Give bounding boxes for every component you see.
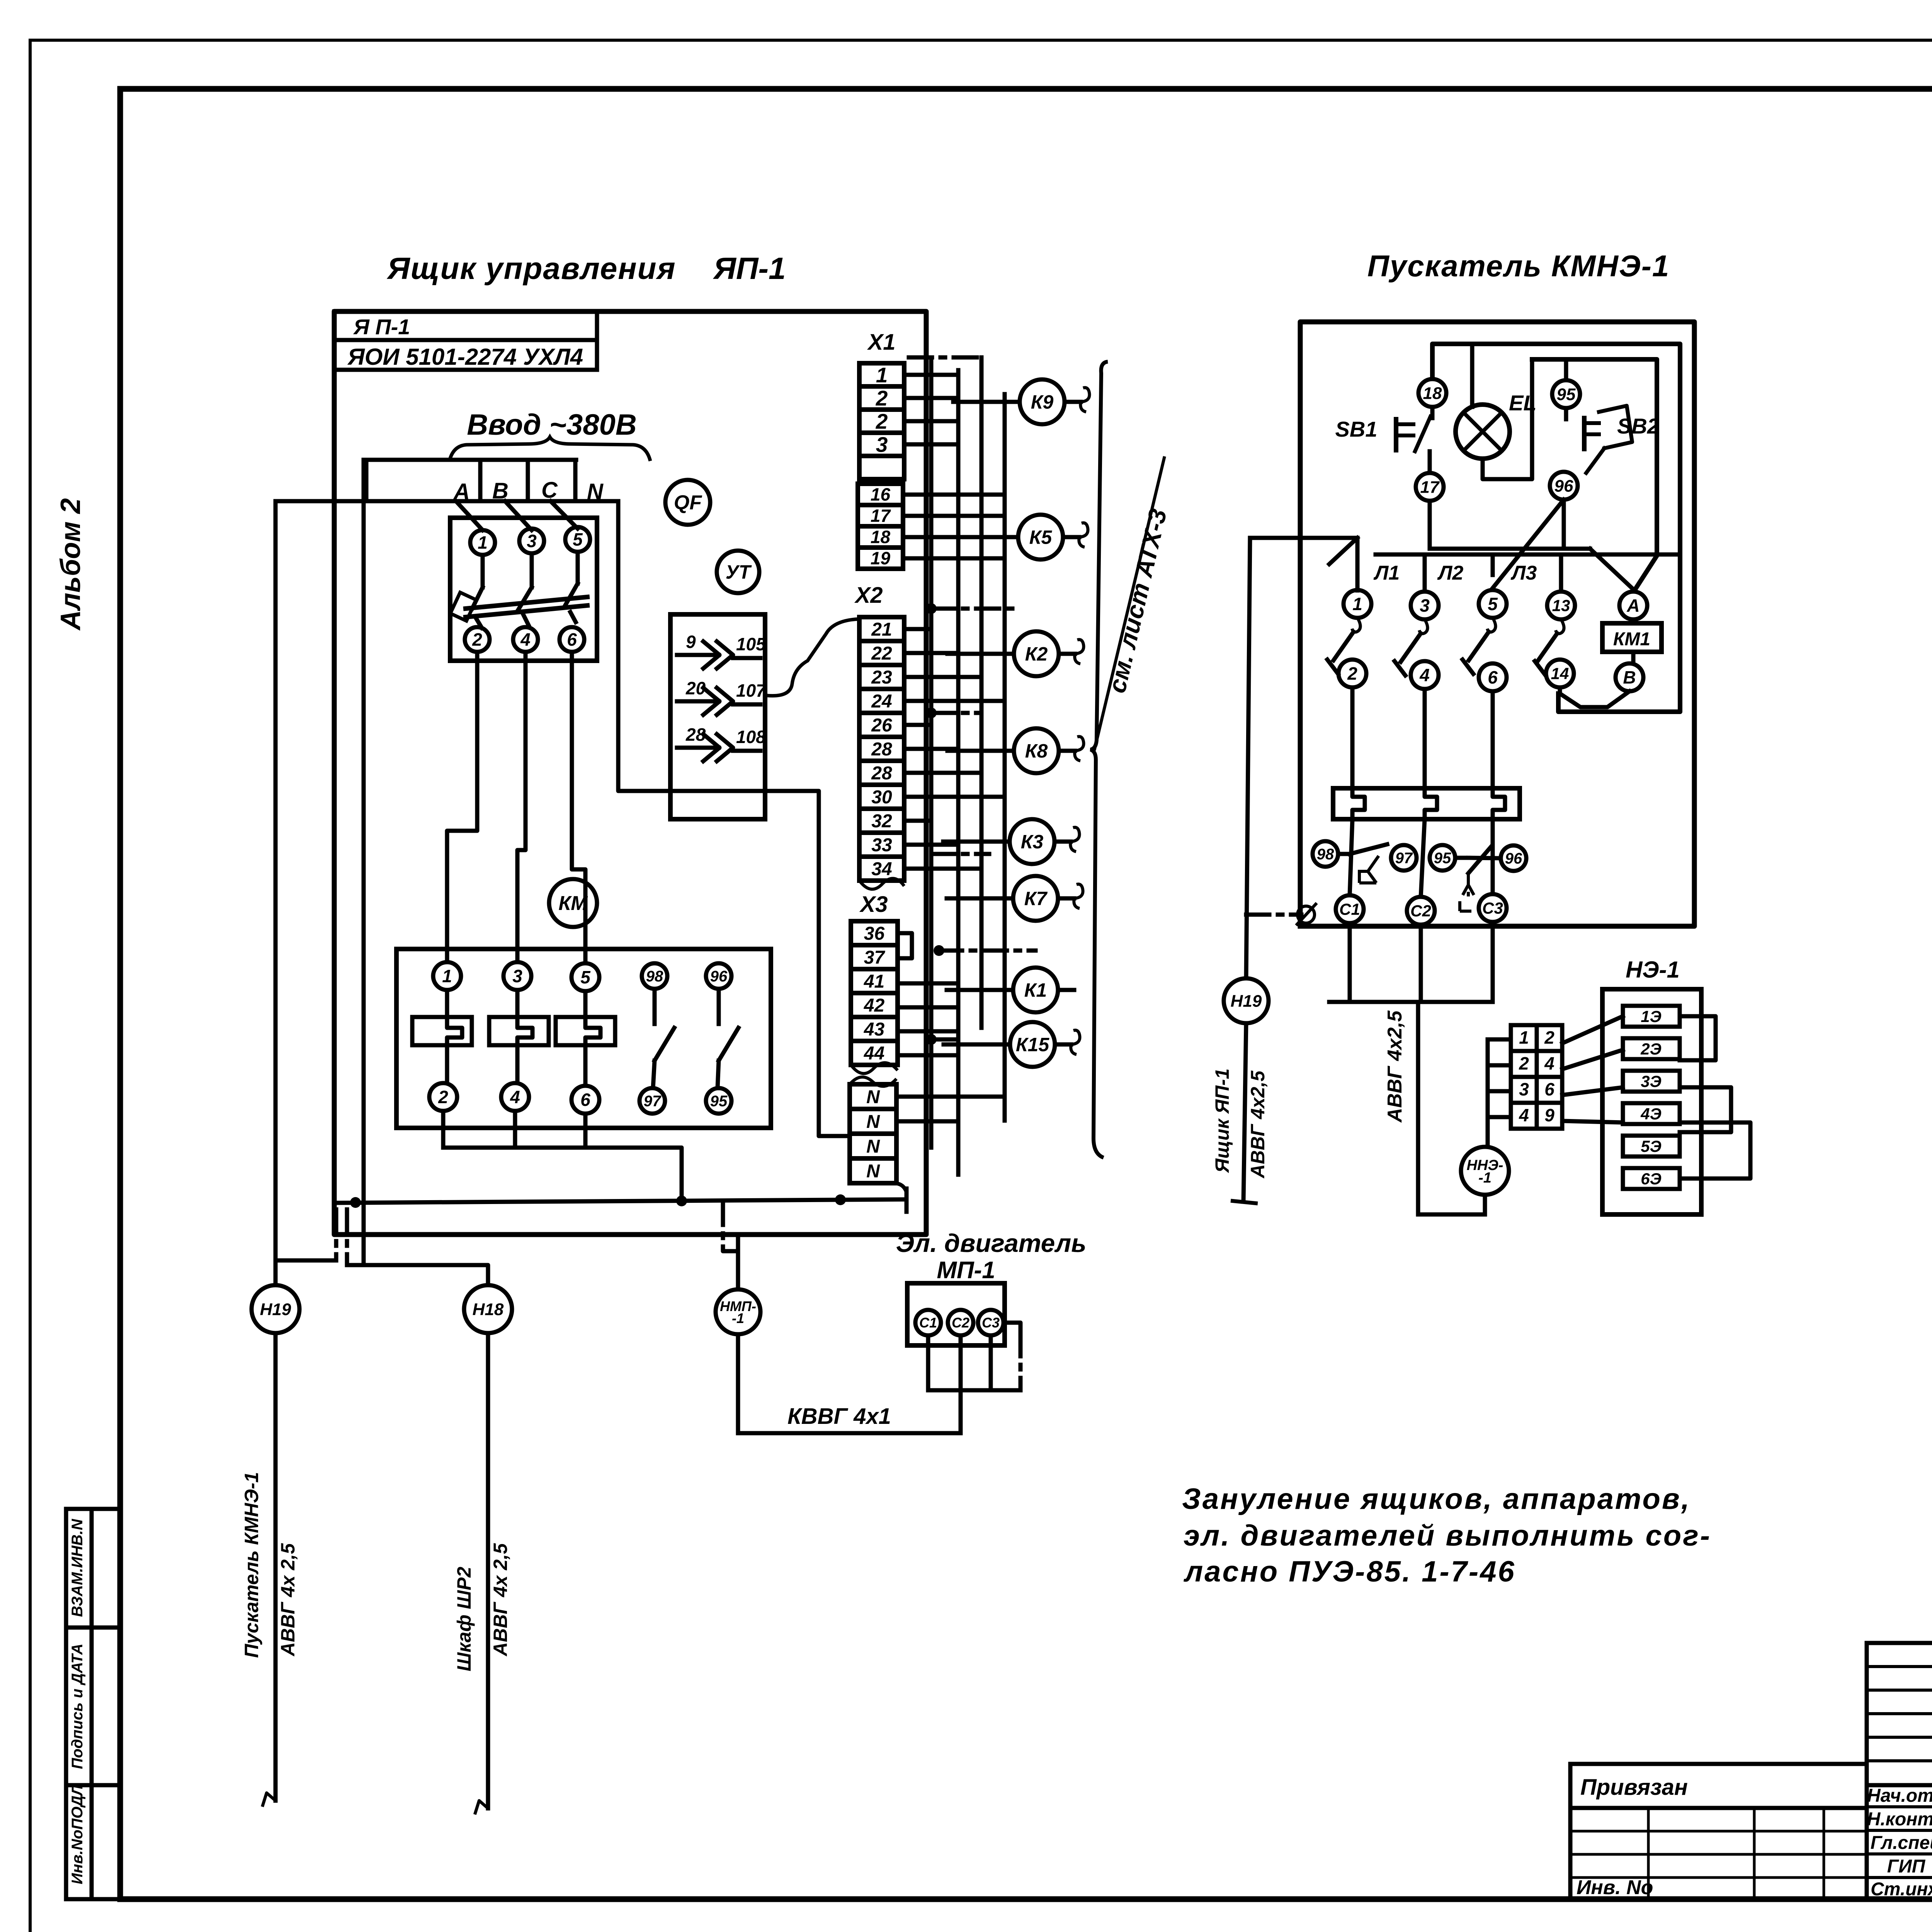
- svg-text:44: 44: [864, 1043, 884, 1064]
- main contacts: [1327, 618, 1564, 675]
- svg-text:18: 18: [871, 527, 891, 547]
- svg-text:33: 33: [871, 835, 892, 855]
- heater out wires: [1350, 819, 1493, 897]
- wire УТ to X2: [767, 619, 859, 696]
- wire B to QF3: [505, 501, 532, 530]
- svg-text:95: 95: [1434, 850, 1451, 867]
- KM terminal 98: [642, 963, 667, 989]
- pole terminal 4: [1411, 661, 1439, 689]
- svg-text:N: N: [866, 1087, 880, 1107]
- svg-text:34: 34: [871, 859, 892, 879]
- svg-text:6: 6: [580, 1090, 590, 1110]
- stub wires 16-19: [903, 495, 1005, 558]
- brace see sheet ATX-3: [1090, 362, 1172, 1158]
- terminal 96b: [1501, 845, 1526, 871]
- svg-text:К3: К3: [1021, 831, 1044, 853]
- left stamp column: [66, 1509, 120, 1899]
- relay coil marker К5: [952, 515, 1088, 560]
- svg-text:Инв. No: Инв. No: [1577, 1876, 1653, 1899]
- wire trunk d: [1003, 394, 1007, 1121]
- dashdot jumpers: [909, 357, 1036, 1045]
- terminal 97b: [1391, 845, 1417, 871]
- KM terminal 3: [503, 962, 531, 990]
- svg-text:2Э: 2Э: [1640, 1040, 1662, 1058]
- svg-text:QF: QF: [674, 492, 702, 514]
- control wires: [1430, 500, 1634, 590]
- svg-text:17: 17: [871, 506, 891, 526]
- svg-text:43: 43: [864, 1019, 885, 1040]
- svg-text:-1: -1: [732, 1310, 744, 1326]
- incoming junction wires: [1300, 538, 1679, 591]
- svg-text:-1: -1: [1478, 1170, 1492, 1186]
- svg-text:Шкаф ШР2: Шкаф ШР2: [453, 1566, 475, 1671]
- svg-text:Эл. двигатель: Эл. двигатель: [896, 1229, 1087, 1257]
- svg-text:Гл.спец: Гл.спец: [1871, 1833, 1932, 1853]
- button SB2: [1566, 406, 1659, 473]
- terminal 18: [1418, 379, 1446, 407]
- cable marker H19 КМНЭ: [1224, 978, 1269, 1023]
- svg-text:МП-1: МП-1: [937, 1257, 995, 1284]
- svg-text:26: 26: [871, 715, 892, 736]
- labels Л1 Л2 Л3: [1373, 562, 1537, 584]
- svg-text:5: 5: [580, 967, 591, 987]
- wire to НЭ-1 terminals: [1488, 1039, 1511, 1146]
- circuit breaker QF box: [450, 518, 597, 661]
- svg-text:КВВГ 4х1: КВВГ 4х1: [787, 1404, 891, 1429]
- terminal C3: [1479, 894, 1507, 922]
- KM terminal 2: [429, 1083, 457, 1111]
- KM aux contact 98-97: [653, 989, 674, 1088]
- contactor coil КМ1: [1602, 619, 1662, 663]
- svg-text:2: 2: [1544, 1027, 1554, 1048]
- svg-text:6: 6: [567, 629, 577, 650]
- svg-text:97: 97: [644, 1093, 662, 1110]
- thermal overload heater: [1333, 788, 1520, 819]
- wire НМП-1 drop: [736, 1235, 740, 1289]
- brace under Ввод: [449, 437, 650, 461]
- grounding bus: [335, 1189, 906, 1218]
- svg-text:Я П-1: Я П-1: [353, 315, 410, 339]
- svg-text:К1: К1: [1024, 980, 1047, 1001]
- svg-text:эл. двигателей выполнить сог: эл. двигателей выполнить сог-: [1184, 1519, 1711, 1552]
- svg-text:9: 9: [1544, 1105, 1554, 1125]
- svg-text:16: 16: [871, 485, 891, 505]
- pole terminal 1: [1344, 590, 1371, 618]
- motor МП-1 box: [907, 1283, 1005, 1345]
- svg-text:24: 24: [871, 691, 892, 712]
- svg-text:21: 21: [871, 619, 892, 640]
- pole terminal 3: [1411, 592, 1439, 619]
- feed wire 380V: [276, 499, 618, 503]
- stub wires N: [896, 1097, 1005, 1121]
- stub wires X3: [898, 933, 958, 1055]
- stub wires X2: [904, 629, 1004, 869]
- wire H19 feeder: [276, 501, 336, 1284]
- КМНЭ C wires collector: [1329, 922, 1493, 1214]
- svg-text:ЯП-1: ЯП-1: [713, 251, 786, 286]
- svg-text:Нач.отд: Нач.отд: [1867, 1786, 1932, 1806]
- svg-text:Альбом 2: Альбом 2: [55, 498, 86, 631]
- svg-text:К15: К15: [1016, 1034, 1050, 1056]
- incoming terminal box: [366, 460, 576, 501]
- wire C to QF5: [551, 501, 578, 529]
- coil terminal A: [1619, 592, 1647, 619]
- svg-text:АВВГ 4х2,5: АВВГ 4х2,5: [1384, 1010, 1406, 1123]
- wire 14 to B: [1560, 687, 1629, 707]
- svg-text:98: 98: [1317, 846, 1334, 863]
- KM terminal 6: [571, 1086, 599, 1114]
- title block left box: [1570, 1764, 1867, 1899]
- svg-text:Х3: Х3: [859, 892, 888, 917]
- album label: [55, 498, 86, 631]
- enclosure Пускатель КМНЭ-1: [1300, 322, 1694, 926]
- contactor KM box: [396, 949, 771, 1128]
- svg-text:97: 97: [1395, 850, 1413, 867]
- phase labels A B C N: [453, 478, 604, 504]
- designator KM: [549, 879, 597, 927]
- terminal block N: [850, 1077, 896, 1183]
- svg-text:3: 3: [876, 432, 888, 456]
- svg-text:2: 2: [876, 409, 888, 433]
- svg-text:Ст.инж: Ст.инж: [1871, 1879, 1932, 1900]
- svg-text:SB1: SB1: [1335, 417, 1378, 441]
- svg-text:Н19: Н19: [260, 1300, 291, 1319]
- svg-text:107: 107: [736, 680, 767, 701]
- svg-text:41: 41: [864, 971, 884, 992]
- QF terminal 5: [565, 527, 590, 583]
- cable H19 to КМНЭ-1: [241, 1334, 299, 1805]
- svg-text:N: N: [866, 1136, 880, 1157]
- label box ЯП-1 type: [334, 311, 597, 370]
- svg-text:4: 4: [1519, 1105, 1529, 1125]
- cable H18 to ШР2: [453, 1334, 511, 1813]
- overload contact 98-97: [1338, 844, 1387, 883]
- designator УТ: [717, 551, 759, 593]
- svg-text:28: 28: [871, 739, 892, 760]
- KM pole C: [556, 991, 615, 1086]
- terminal 98b: [1313, 841, 1338, 867]
- terminal block X1: [859, 330, 904, 479]
- relay coil marker К7: [947, 876, 1083, 921]
- svg-text:B: B: [1623, 667, 1636, 687]
- motor МП-1 terminal С2: [948, 1310, 973, 1335]
- svg-text:НЭ-1: НЭ-1: [1626, 957, 1680, 983]
- PE dashdot link НМП: [723, 1202, 737, 1251]
- terminal C2: [1407, 897, 1435, 925]
- pole terminal 5: [1479, 590, 1507, 618]
- KM aux contact 96-95: [718, 989, 738, 1088]
- svg-text:С3: С3: [1482, 899, 1503, 917]
- svg-text:32: 32: [871, 811, 892, 832]
- terminal 95: [1552, 359, 1580, 408]
- svg-text:3: 3: [1519, 1079, 1529, 1099]
- wires KM outputs collector: [443, 1111, 682, 1201]
- svg-text:96: 96: [710, 968, 728, 985]
- pole terminal 14: [1546, 660, 1574, 687]
- QF terminal 2: [465, 627, 490, 652]
- svg-text:C: C: [541, 478, 558, 503]
- svg-text:К8: К8: [1025, 740, 1048, 762]
- svg-text:22: 22: [871, 643, 892, 664]
- control box: [1432, 344, 1680, 712]
- svg-text:ласно ПУЭ-85. 1-7-46: ласно ПУЭ-85. 1-7-46: [1183, 1555, 1516, 1588]
- svg-text:Пускатель КМНЭ-1: Пускатель КМНЭ-1: [241, 1472, 262, 1658]
- QF terminal 6: [560, 627, 584, 652]
- terminal C1: [1336, 895, 1364, 923]
- svg-text:1: 1: [1352, 594, 1362, 614]
- svg-text:ГИП: ГИП: [1887, 1856, 1926, 1877]
- svg-text:3: 3: [527, 531, 537, 551]
- svg-text:К7: К7: [1024, 888, 1048, 910]
- relay coil marker К2: [947, 631, 1084, 676]
- svg-text:19: 19: [871, 548, 891, 568]
- svg-text:К5: К5: [1029, 527, 1053, 548]
- svg-text:3Э: 3Э: [1641, 1072, 1662, 1090]
- motor МП-1 terminal С1: [915, 1310, 941, 1335]
- svg-text:6Э: 6Э: [1641, 1170, 1662, 1188]
- terminal block НЭ-1 1-4: [1511, 1025, 1562, 1129]
- cable marker ННЭ-1: [1461, 1147, 1509, 1195]
- enclosure ЯП-1: [334, 311, 926, 1235]
- cable marker НМП-1: [716, 1289, 760, 1334]
- KM terminal 96: [706, 963, 731, 989]
- QF terminal 3: [519, 529, 544, 587]
- svg-text:14: 14: [1551, 665, 1569, 683]
- svg-text:96: 96: [1505, 850, 1522, 867]
- svg-text:30: 30: [871, 787, 892, 808]
- wires QF to KM: [447, 652, 585, 963]
- svg-text:3: 3: [512, 966, 522, 986]
- svg-text:Зануление ящиков, аппаратов,: Зануление ящиков, аппаратов,: [1182, 1483, 1691, 1515]
- svg-text:13: 13: [1552, 597, 1570, 615]
- QF terminal 4: [513, 627, 538, 652]
- svg-text:Л3: Л3: [1510, 562, 1537, 584]
- svg-text:С1: С1: [1339, 900, 1360, 918]
- wire trunk a: [929, 357, 934, 1148]
- svg-text:36: 36: [864, 923, 885, 944]
- svg-text:4: 4: [1419, 665, 1430, 685]
- KM terminal 97: [639, 1088, 665, 1114]
- KM terminal 5: [571, 963, 599, 991]
- pole terminal 13: [1547, 592, 1575, 619]
- svg-text:Инв.NoПОДЛ: Инв.NoПОДЛ: [69, 1784, 86, 1884]
- svg-text:5Э: 5Э: [1641, 1137, 1662, 1155]
- relay coil marker К9: [953, 379, 1090, 424]
- svg-text:17: 17: [1420, 478, 1440, 497]
- terminal 95b: [1430, 845, 1455, 871]
- svg-text:4Э: 4Э: [1640, 1105, 1662, 1123]
- svg-text:6: 6: [1488, 667, 1498, 687]
- svg-text:1: 1: [478, 532, 488, 553]
- svg-text:96: 96: [1554, 476, 1573, 495]
- section title motor МП-1: [896, 1229, 1087, 1284]
- wire N trunk to H18: [347, 460, 488, 1284]
- pole terminal 2: [1338, 660, 1366, 687]
- svg-text:КМ: КМ: [558, 892, 588, 915]
- svg-text:Н18: Н18: [473, 1300, 504, 1319]
- svg-text:К9: К9: [1031, 391, 1054, 413]
- wire trunk c: [980, 357, 984, 1028]
- svg-text:Ввод ~380В: Ввод ~380В: [467, 408, 637, 441]
- svg-text:1: 1: [442, 966, 452, 986]
- svg-text:2: 2: [1347, 663, 1357, 684]
- svg-text:Подпись и ДАТА: Подпись и ДАТА: [69, 1644, 86, 1769]
- svg-text:С2: С2: [1410, 902, 1431, 920]
- svg-text:Х1: Х1: [867, 330, 896, 355]
- svg-text:95: 95: [1557, 385, 1576, 404]
- terminal block 16-19: [858, 484, 903, 569]
- svg-text:5: 5: [573, 529, 583, 549]
- title block staff table: [1867, 1784, 1932, 1900]
- cable Ящик ЯП-1: [1211, 1023, 1269, 1203]
- svg-text:ВЗАМ.ИНВ.N: ВЗАМ.ИНВ.N: [69, 1519, 86, 1617]
- wire trunk b: [956, 370, 961, 1175]
- pole terminal 6: [1479, 663, 1507, 691]
- svg-text:Л1: Л1: [1373, 562, 1400, 584]
- terminal block X2: [854, 583, 904, 889]
- svg-text:Н19: Н19: [1231, 992, 1262, 1010]
- button SB1: [1335, 407, 1432, 473]
- svg-text:2: 2: [876, 386, 888, 410]
- svg-text:1Э: 1Э: [1641, 1007, 1662, 1026]
- designator QF: [665, 480, 710, 525]
- svg-text:SB2: SB2: [1617, 414, 1659, 438]
- svg-text:108: 108: [736, 727, 766, 747]
- heater wires: [1352, 687, 1493, 788]
- svg-text:4: 4: [510, 1087, 520, 1107]
- heater block НЭ-1: [1562, 957, 1750, 1214]
- svg-text:4: 4: [520, 629, 531, 650]
- svg-text:ЯОИ 5101-2274 УХЛ4: ЯОИ 5101-2274 УХЛ4: [347, 344, 583, 370]
- wire КМНЭ H19: [1246, 538, 1301, 978]
- svg-text:18: 18: [1423, 384, 1442, 403]
- title block revision grid: [1867, 1643, 1932, 1785]
- svg-text:4: 4: [1544, 1053, 1554, 1073]
- cable КВВГ 4х1 to МП-1: [738, 1334, 961, 1433]
- svg-text:С3: С3: [982, 1315, 1000, 1331]
- svg-text:N: N: [866, 1112, 880, 1132]
- svg-text:105: 105: [736, 634, 766, 654]
- svg-text:A: A: [1626, 595, 1639, 616]
- section title ЯП-1: [386, 251, 786, 286]
- svg-text:23: 23: [871, 667, 892, 688]
- section title Пускатель КМНЭ-1: [1367, 249, 1670, 283]
- KM pole B: [489, 990, 549, 1083]
- current transformer box УТ: [670, 614, 767, 819]
- relay coil marker К1: [947, 968, 1074, 1012]
- svg-text:1: 1: [1519, 1027, 1529, 1048]
- relay coil marker К3: [943, 819, 1080, 864]
- svg-text:2: 2: [1519, 1053, 1529, 1073]
- wire N trunk: [618, 501, 850, 1136]
- svg-text:КМ1: КМ1: [1613, 629, 1650, 650]
- wire N hook to bus: [889, 1183, 906, 1192]
- terminal 96: [1550, 472, 1578, 500]
- svg-text:2: 2: [438, 1087, 448, 1107]
- PE entry: [1297, 904, 1316, 924]
- svg-text:Привязан: Привязан: [1580, 1775, 1688, 1800]
- QF mechanism: [450, 583, 587, 628]
- svg-text:АВВГ 4х2,5: АВВГ 4х2,5: [1247, 1070, 1269, 1179]
- KM terminal 1: [433, 962, 461, 990]
- terminal 17: [1416, 473, 1444, 501]
- svg-text:3: 3: [1420, 595, 1430, 616]
- svg-text:К2: К2: [1025, 643, 1048, 665]
- svg-text:С2: С2: [952, 1315, 969, 1331]
- svg-text:95: 95: [710, 1093, 728, 1110]
- stub wires X1: [904, 375, 958, 444]
- motor МП-1 terminal С3: [978, 1310, 1003, 1335]
- svg-text:1: 1: [876, 363, 888, 387]
- svg-text:Л2: Л2: [1437, 562, 1464, 584]
- svg-text:6: 6: [1544, 1079, 1554, 1099]
- svg-text:42: 42: [864, 995, 885, 1016]
- svg-text:АВВГ 4х 2,5: АВВГ 4х 2,5: [277, 1543, 299, 1657]
- lamp EL: [1456, 344, 1537, 479]
- wire A to QF1: [456, 501, 483, 530]
- relay coil marker К15: [944, 1022, 1080, 1067]
- svg-text:Ящик управления: Ящик управления: [386, 251, 676, 286]
- svg-text:УТ: УТ: [726, 561, 752, 583]
- svg-text:37: 37: [864, 947, 886, 968]
- cable marker H19: [252, 1285, 299, 1333]
- svg-text:5: 5: [1488, 594, 1498, 614]
- svg-text:С1: С1: [919, 1315, 937, 1331]
- svg-text:Н.контр: Н.контр: [1867, 1809, 1932, 1830]
- note text: [1182, 1483, 1711, 1588]
- svg-text:28: 28: [871, 763, 892, 784]
- overload contact 95-96: [1455, 846, 1501, 911]
- svg-text:9: 9: [686, 632, 696, 652]
- relay coil marker К8: [947, 728, 1084, 773]
- svg-text:Ящик ЯП-1: Ящик ЯП-1: [1211, 1068, 1233, 1173]
- terminal block X3: [851, 892, 898, 1073]
- svg-text:2: 2: [472, 629, 482, 650]
- svg-text:N: N: [866, 1161, 880, 1182]
- svg-text:Х2: Х2: [854, 583, 883, 608]
- PE dashdot links H19 H18: [336, 1209, 347, 1265]
- motor МП-1 wires: [928, 1323, 1020, 1433]
- label Ввод ~380В: [467, 408, 637, 441]
- KM pole A: [412, 990, 472, 1083]
- svg-text:АВВГ 4х 2,5: АВВГ 4х 2,5: [490, 1543, 511, 1657]
- KM terminal 95: [706, 1088, 731, 1114]
- KM terminal 4: [501, 1083, 529, 1111]
- cable marker H18: [464, 1285, 512, 1333]
- svg-text:Пускатель КМНЭ-1: Пускатель КМНЭ-1: [1367, 249, 1670, 283]
- svg-text:98: 98: [646, 968, 663, 985]
- QF terminal 1: [470, 530, 495, 587]
- coil terminal B: [1616, 663, 1643, 691]
